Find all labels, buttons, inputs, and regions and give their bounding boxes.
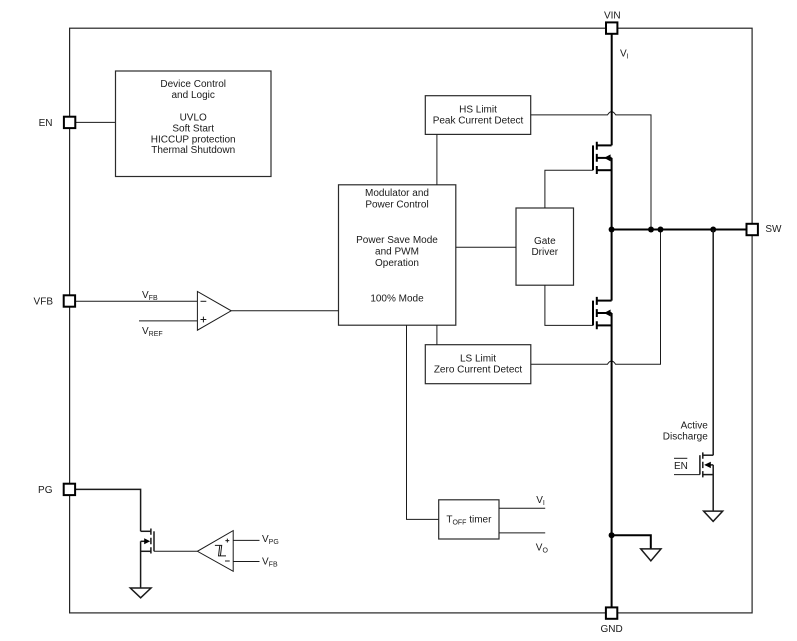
- svg-text:VIN: VIN: [604, 11, 621, 22]
- svg-text:Operation: Operation: [375, 258, 419, 269]
- power rail HS source to LS drain through SW node: [611, 158, 613, 301]
- wire PG pin to PG MOSFET drain: [75, 489, 141, 531]
- op-amp PG comparator with hysteresis: [197, 531, 233, 572]
- pin GND: [606, 607, 617, 618]
- ground symbol at PG MOSFET: [130, 588, 151, 598]
- power rail LS source down to GND pin: [611, 313, 613, 607]
- wire HS Limit output to SW node with hop over VIN rail: [531, 112, 651, 230]
- junction node ground branch: [609, 532, 615, 538]
- svg-text:UVLO: UVLO: [180, 113, 207, 124]
- ground symbol at active discharge: [704, 511, 723, 521]
- wire LS Limit output to SW node with hop over power rail: [531, 230, 661, 365]
- wire rail branch to ground symbol: [612, 535, 651, 549]
- block LS Limit Zero Current Detect: [425, 345, 531, 384]
- svg-text:Power Control: Power Control: [365, 200, 428, 211]
- wire SW node down to active discharge MOSFET drain: [712, 230, 714, 456]
- wire EN pin to Device Control block: [76, 121, 116, 123]
- wire Gate Driver to HS gate: [545, 170, 593, 208]
- junction node HS limit wire: [648, 227, 654, 233]
- transistor LS MOSFET: [593, 297, 612, 329]
- svg-text:GND: GND: [600, 624, 622, 635]
- svg-text:SW: SW: [765, 224, 782, 235]
- svg-text:Power Save Mode: Power Save Mode: [356, 235, 438, 246]
- wire PG comparator output to PG MOSFET gate: [154, 550, 197, 552]
- wire EN-bar to active discharge gate: [674, 474, 700, 476]
- block Gate Driver: [516, 208, 574, 285]
- junction node LS limit wire: [658, 227, 664, 233]
- wire Modulator to TOFF timer: [407, 325, 439, 519]
- svg-text:Thermal Shutdown: Thermal Shutdown: [151, 145, 235, 156]
- pin VFB: [64, 295, 75, 306]
- block U1 Device Control and Logic: [116, 71, 272, 177]
- svg-text:and Logic: and Logic: [172, 90, 215, 101]
- svg-text:EN: EN: [674, 461, 688, 472]
- wire VREF to error amp non-inverting input: [139, 320, 197, 322]
- svg-text:Soft Start: Soft Start: [172, 123, 214, 134]
- svg-text:Device Control: Device Control: [160, 79, 226, 90]
- block HS Limit Peak Current Detect: [425, 96, 530, 135]
- svg-text:Active: Active: [681, 421, 709, 432]
- pin EN: [64, 117, 75, 128]
- block Modulator and Power Control: [339, 185, 456, 325]
- svg-text:PG: PG: [38, 485, 53, 496]
- svg-text:Discharge: Discharge: [663, 431, 708, 442]
- pin PG: [64, 484, 75, 495]
- wire active discharge source to ground: [712, 465, 714, 511]
- wire HS Limit to Modulator: [436, 134, 438, 184]
- svg-text:HS Limit: HS Limit: [459, 105, 497, 116]
- wire Modulator to Gate Driver: [456, 246, 516, 248]
- wire error amp output to Modulator: [231, 310, 338, 312]
- wire TOFF timer output VO: [499, 532, 545, 534]
- transistor PG MOSFET (mirrored): [141, 529, 154, 554]
- transistor HS MOSFET: [593, 142, 612, 174]
- svg-text:HICCUP protection: HICCUP protection: [151, 134, 236, 145]
- wire Modulator to LS Limit: [436, 325, 438, 345]
- svg-text:LS Limit: LS Limit: [460, 353, 496, 364]
- junction node active discharge drain: [710, 227, 716, 233]
- svg-text:and PWM: and PWM: [375, 247, 419, 258]
- op-amp error amplifier: [197, 292, 231, 331]
- ground symbol at power rail: [641, 549, 661, 561]
- wire PG comparator non-inverting input VPG: [233, 539, 259, 541]
- block TOFF timer: [439, 500, 499, 539]
- wire PG MOSFET body-source to ground: [140, 541, 142, 588]
- svg-text:Peak Current Detect: Peak Current Detect: [433, 116, 524, 127]
- pin VIN: [606, 22, 617, 33]
- transistor active discharge MOSFET: [700, 452, 713, 477]
- chip boundary rectangle: [70, 28, 753, 613]
- svg-text:100% Mode: 100% Mode: [370, 293, 424, 304]
- svg-text:EN: EN: [39, 118, 53, 129]
- wire VFB pin to error amp inverting input: [75, 300, 197, 302]
- svg-text:Driver: Driver: [531, 247, 558, 258]
- wire PG comparator inverting input VFB: [233, 561, 259, 563]
- pin SW: [747, 224, 758, 235]
- wire SW node to SW pin: [612, 229, 747, 231]
- junction node at SW rail: [609, 227, 615, 233]
- svg-text:Zero Current Detect: Zero Current Detect: [434, 364, 523, 375]
- wire TOFF timer output VI: [499, 507, 545, 509]
- power rail VIN pin down to HS drain: [611, 34, 613, 145]
- svg-text:Modulator and: Modulator and: [365, 188, 429, 199]
- svg-text:Gate: Gate: [534, 236, 556, 247]
- svg-text:VFB: VFB: [34, 297, 54, 308]
- wire Gate Driver to LS gate: [545, 285, 593, 325]
